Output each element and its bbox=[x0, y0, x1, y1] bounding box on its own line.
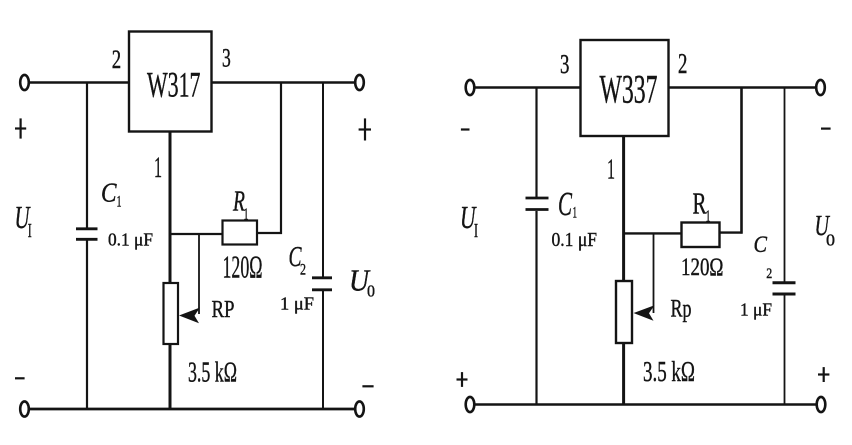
svg-text:3: 3 bbox=[560, 49, 569, 79]
C1 label right bbox=[558, 186, 577, 223]
wire C1 branch upper bbox=[86, 83, 88, 229]
R1 label right bbox=[693, 186, 711, 226]
capacitor C1 bbox=[76, 229, 98, 240]
svg-text:1: 1 bbox=[244, 205, 249, 224]
wire pin 1 vertical bbox=[169, 132, 172, 410]
terminal input + (top-left) bbox=[20, 75, 29, 90]
bottom wire rail bbox=[29, 408, 356, 411]
wire C2 branch upper right bbox=[784, 88, 786, 283]
terminal output + (top-right) bbox=[355, 75, 364, 90]
node UO label bbox=[349, 263, 375, 301]
C1 value label bbox=[101, 177, 122, 210]
svg-text:0.1 μF: 0.1 μF bbox=[552, 229, 598, 251]
svg-text:2: 2 bbox=[678, 49, 688, 80]
svg-text:1: 1 bbox=[573, 205, 578, 222]
node UI label right bbox=[460, 199, 478, 242]
wire C1 branch lower right bbox=[535, 211, 537, 405]
svg-text:1: 1 bbox=[706, 207, 711, 226]
minus sign left bbox=[15, 377, 25, 379]
resistor R1 bbox=[223, 221, 258, 245]
potentiometer RP bbox=[164, 283, 179, 344]
capacitor C2 right bbox=[773, 283, 796, 294]
plus sign bottom-right right circuit bbox=[818, 367, 829, 382]
pin 2 label bbox=[678, 49, 688, 80]
terminal bottom-left bbox=[20, 401, 29, 416]
svg-text:C: C bbox=[101, 177, 117, 207]
wire C1 branch upper right bbox=[535, 88, 537, 198]
wire C2 branch lower right bbox=[784, 296, 786, 405]
svg-text:I: I bbox=[28, 220, 32, 242]
C1 value 0.1uF bbox=[108, 229, 153, 249]
node UI label bbox=[15, 199, 32, 242]
RP label bbox=[212, 297, 235, 323]
Rp value 3.5k right bbox=[643, 356, 695, 388]
C2 value 1uF right bbox=[740, 300, 772, 320]
svg-text:2: 2 bbox=[112, 45, 121, 74]
svg-text:0: 0 bbox=[826, 231, 835, 250]
wire IC pin 3 to output terminal bbox=[212, 81, 356, 84]
terminal output - (top-right) bbox=[816, 80, 825, 95]
svg-text:120Ω: 120Ω bbox=[681, 254, 724, 281]
svg-text:Rp: Rp bbox=[671, 296, 692, 323]
svg-text:1 μF: 1 μF bbox=[280, 294, 314, 314]
minus sign top-right bbox=[821, 128, 831, 130]
svg-text:W317: W317 bbox=[147, 65, 201, 105]
wire R1 to output rail bbox=[257, 83, 282, 235]
C1 value 0.1uF right bbox=[552, 229, 598, 251]
wire input to IC pin 3 bbox=[474, 86, 580, 89]
svg-text:0.1 μF: 0.1 μF bbox=[108, 229, 153, 249]
svg-text:3.5 kΩ: 3.5 kΩ bbox=[643, 356, 695, 388]
svg-text:1: 1 bbox=[117, 194, 122, 211]
wire adj node horizontal right bbox=[624, 232, 682, 234]
wiper arrowhead right bbox=[634, 305, 655, 321]
terminal bottom-right bbox=[355, 401, 364, 416]
Rp label right bbox=[671, 296, 692, 323]
svg-text:C: C bbox=[754, 232, 768, 257]
svg-text:1: 1 bbox=[154, 151, 162, 184]
plus sign bottom-left right circuit bbox=[457, 372, 468, 387]
svg-text:3.5 kΩ: 3.5 kΩ bbox=[188, 357, 237, 389]
pin 1 label bbox=[154, 151, 162, 184]
plus sign left bbox=[15, 118, 26, 138]
wire Rp wiper right bbox=[653, 233, 655, 313]
capacitor C1 right bbox=[526, 198, 549, 210]
C2 value 1uF bbox=[280, 294, 314, 314]
terminal bottom-right right circuit bbox=[817, 397, 826, 412]
svg-text:3: 3 bbox=[222, 43, 231, 72]
R1 label bbox=[232, 186, 248, 224]
bottom wire rail right bbox=[474, 403, 817, 406]
op-amp U1 regulator W317 box bbox=[129, 32, 212, 132]
minus sign right bbox=[362, 385, 373, 387]
R1 value 120 ohm bbox=[223, 249, 263, 285]
wire C2 branch lower bbox=[322, 291, 324, 409]
potentiometer Rp right bbox=[616, 281, 632, 343]
svg-text:C: C bbox=[558, 186, 572, 223]
plus sign right bbox=[359, 118, 371, 140]
R1 value 120 ohm right bbox=[681, 254, 724, 281]
RP value 3.5k bbox=[188, 357, 237, 389]
svg-text:0: 0 bbox=[367, 282, 375, 301]
wire C1 branch lower bbox=[86, 241, 88, 410]
wire adj node horizontal bbox=[170, 233, 223, 235]
resistor R1 right bbox=[682, 223, 720, 248]
svg-text:120Ω: 120Ω bbox=[223, 249, 263, 285]
wire RP wiper bbox=[198, 234, 200, 314]
C2 label bbox=[289, 241, 307, 279]
wire IC pin 2 to output terminal bbox=[669, 86, 817, 89]
wire C2 branch upper bbox=[322, 83, 324, 278]
svg-text:1 μF: 1 μF bbox=[740, 300, 772, 320]
svg-text:W337: W337 bbox=[600, 67, 658, 112]
C2 label right bbox=[754, 232, 773, 282]
svg-text:1: 1 bbox=[607, 154, 615, 186]
terminal bottom-left right circuit bbox=[466, 397, 475, 412]
wire pin 1 vertical right bbox=[622, 136, 625, 405]
terminal input - (top-left) bbox=[466, 80, 475, 95]
pin 3 label bbox=[222, 43, 231, 72]
svg-text:2: 2 bbox=[300, 262, 306, 279]
svg-text:2: 2 bbox=[766, 266, 772, 282]
regulator W337 box bbox=[581, 40, 669, 136]
wiper arrowhead bbox=[179, 308, 200, 324]
svg-text:RP: RP bbox=[212, 297, 235, 323]
pin 3 label bbox=[560, 49, 569, 79]
capacitor C2 bbox=[312, 278, 332, 290]
wire input to IC pin 2 bbox=[29, 81, 129, 84]
wire R1 to output rail right bbox=[720, 88, 743, 234]
pin 2 label bbox=[112, 45, 121, 74]
pin 1 label right bbox=[607, 154, 615, 186]
node UO label right bbox=[815, 210, 836, 250]
minus sign top-left bbox=[461, 128, 470, 130]
svg-text:I: I bbox=[474, 220, 478, 242]
